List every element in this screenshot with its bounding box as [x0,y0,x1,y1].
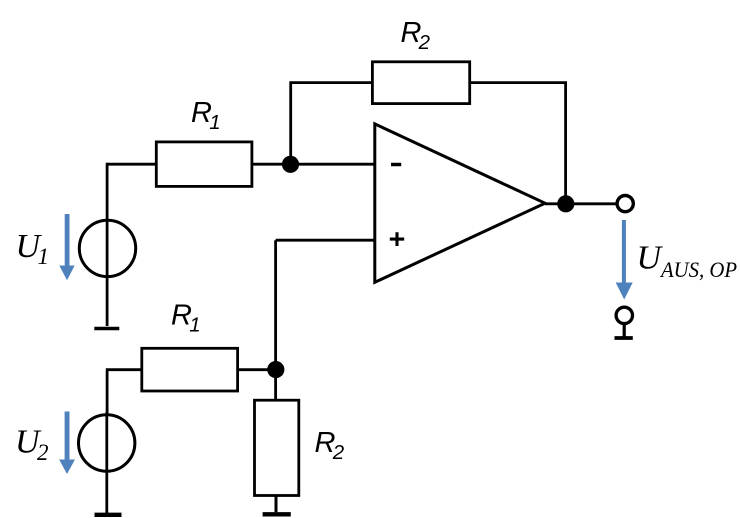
wire from bottom R1 left corner up-left [106,370,143,414]
ground below U2 [95,513,122,517]
svg-text:AUS, OP: AUS, OP [659,257,737,282]
wire feedback left vertical+horizontal from node A to R2 [291,83,374,166]
node A (inverting input junction) [282,156,299,173]
wire from U1 top corner into R1 [107,163,157,166]
ground below U1 [94,327,119,331]
terminal reference (open circle lower) [616,307,632,323]
wire from noninverting input down to node B and R2 [274,240,277,401]
wire through voltage source U2 [105,412,108,514]
ground below lower R2 [263,512,291,516]
wire from R1 to op-amp inverting input [252,163,375,166]
wire op-amp output [545,202,616,205]
arrow U_AUS,OP (blue) [616,220,633,300]
svg-text:1: 1 [189,314,200,337]
resistor R2 (feedback) [372,62,469,104]
svg-text:U: U [637,239,664,276]
wire through voltage source U1 [106,163,109,326]
wire stem below reference terminal [623,325,626,337]
voltage source U2 circle [79,415,135,471]
op-amp minus pin label [391,163,401,167]
voltage source U1 circle [79,220,135,276]
op-amp U1 triangle [375,124,545,282]
svg-text:1: 1 [209,111,220,134]
ground below reference terminal [615,336,633,340]
terminal output (open circle) [617,196,633,212]
resistor R1 (lower) [142,348,238,391]
node B (noninverting divider junction) [267,361,284,378]
resistor R2 (lower, vertical) [255,400,299,495]
svg-text:2: 2 [418,31,431,54]
svg-text:2: 2 [37,440,49,465]
wire stem below lower R2 [275,496,278,513]
node output junction [557,195,574,212]
svg-text:2: 2 [332,441,345,464]
arrow U1 (blue) [59,214,74,280]
wire feedback from R2 right across and down to output node [469,83,566,204]
wire from lower R1 to node B [238,368,276,371]
wire op-amp noninverting input [276,239,375,242]
arrow U2 (blue) [59,412,75,475]
svg-text:1: 1 [38,244,50,269]
resistor R1 (upper) [156,142,252,187]
op-amp plus pin label [390,232,404,246]
